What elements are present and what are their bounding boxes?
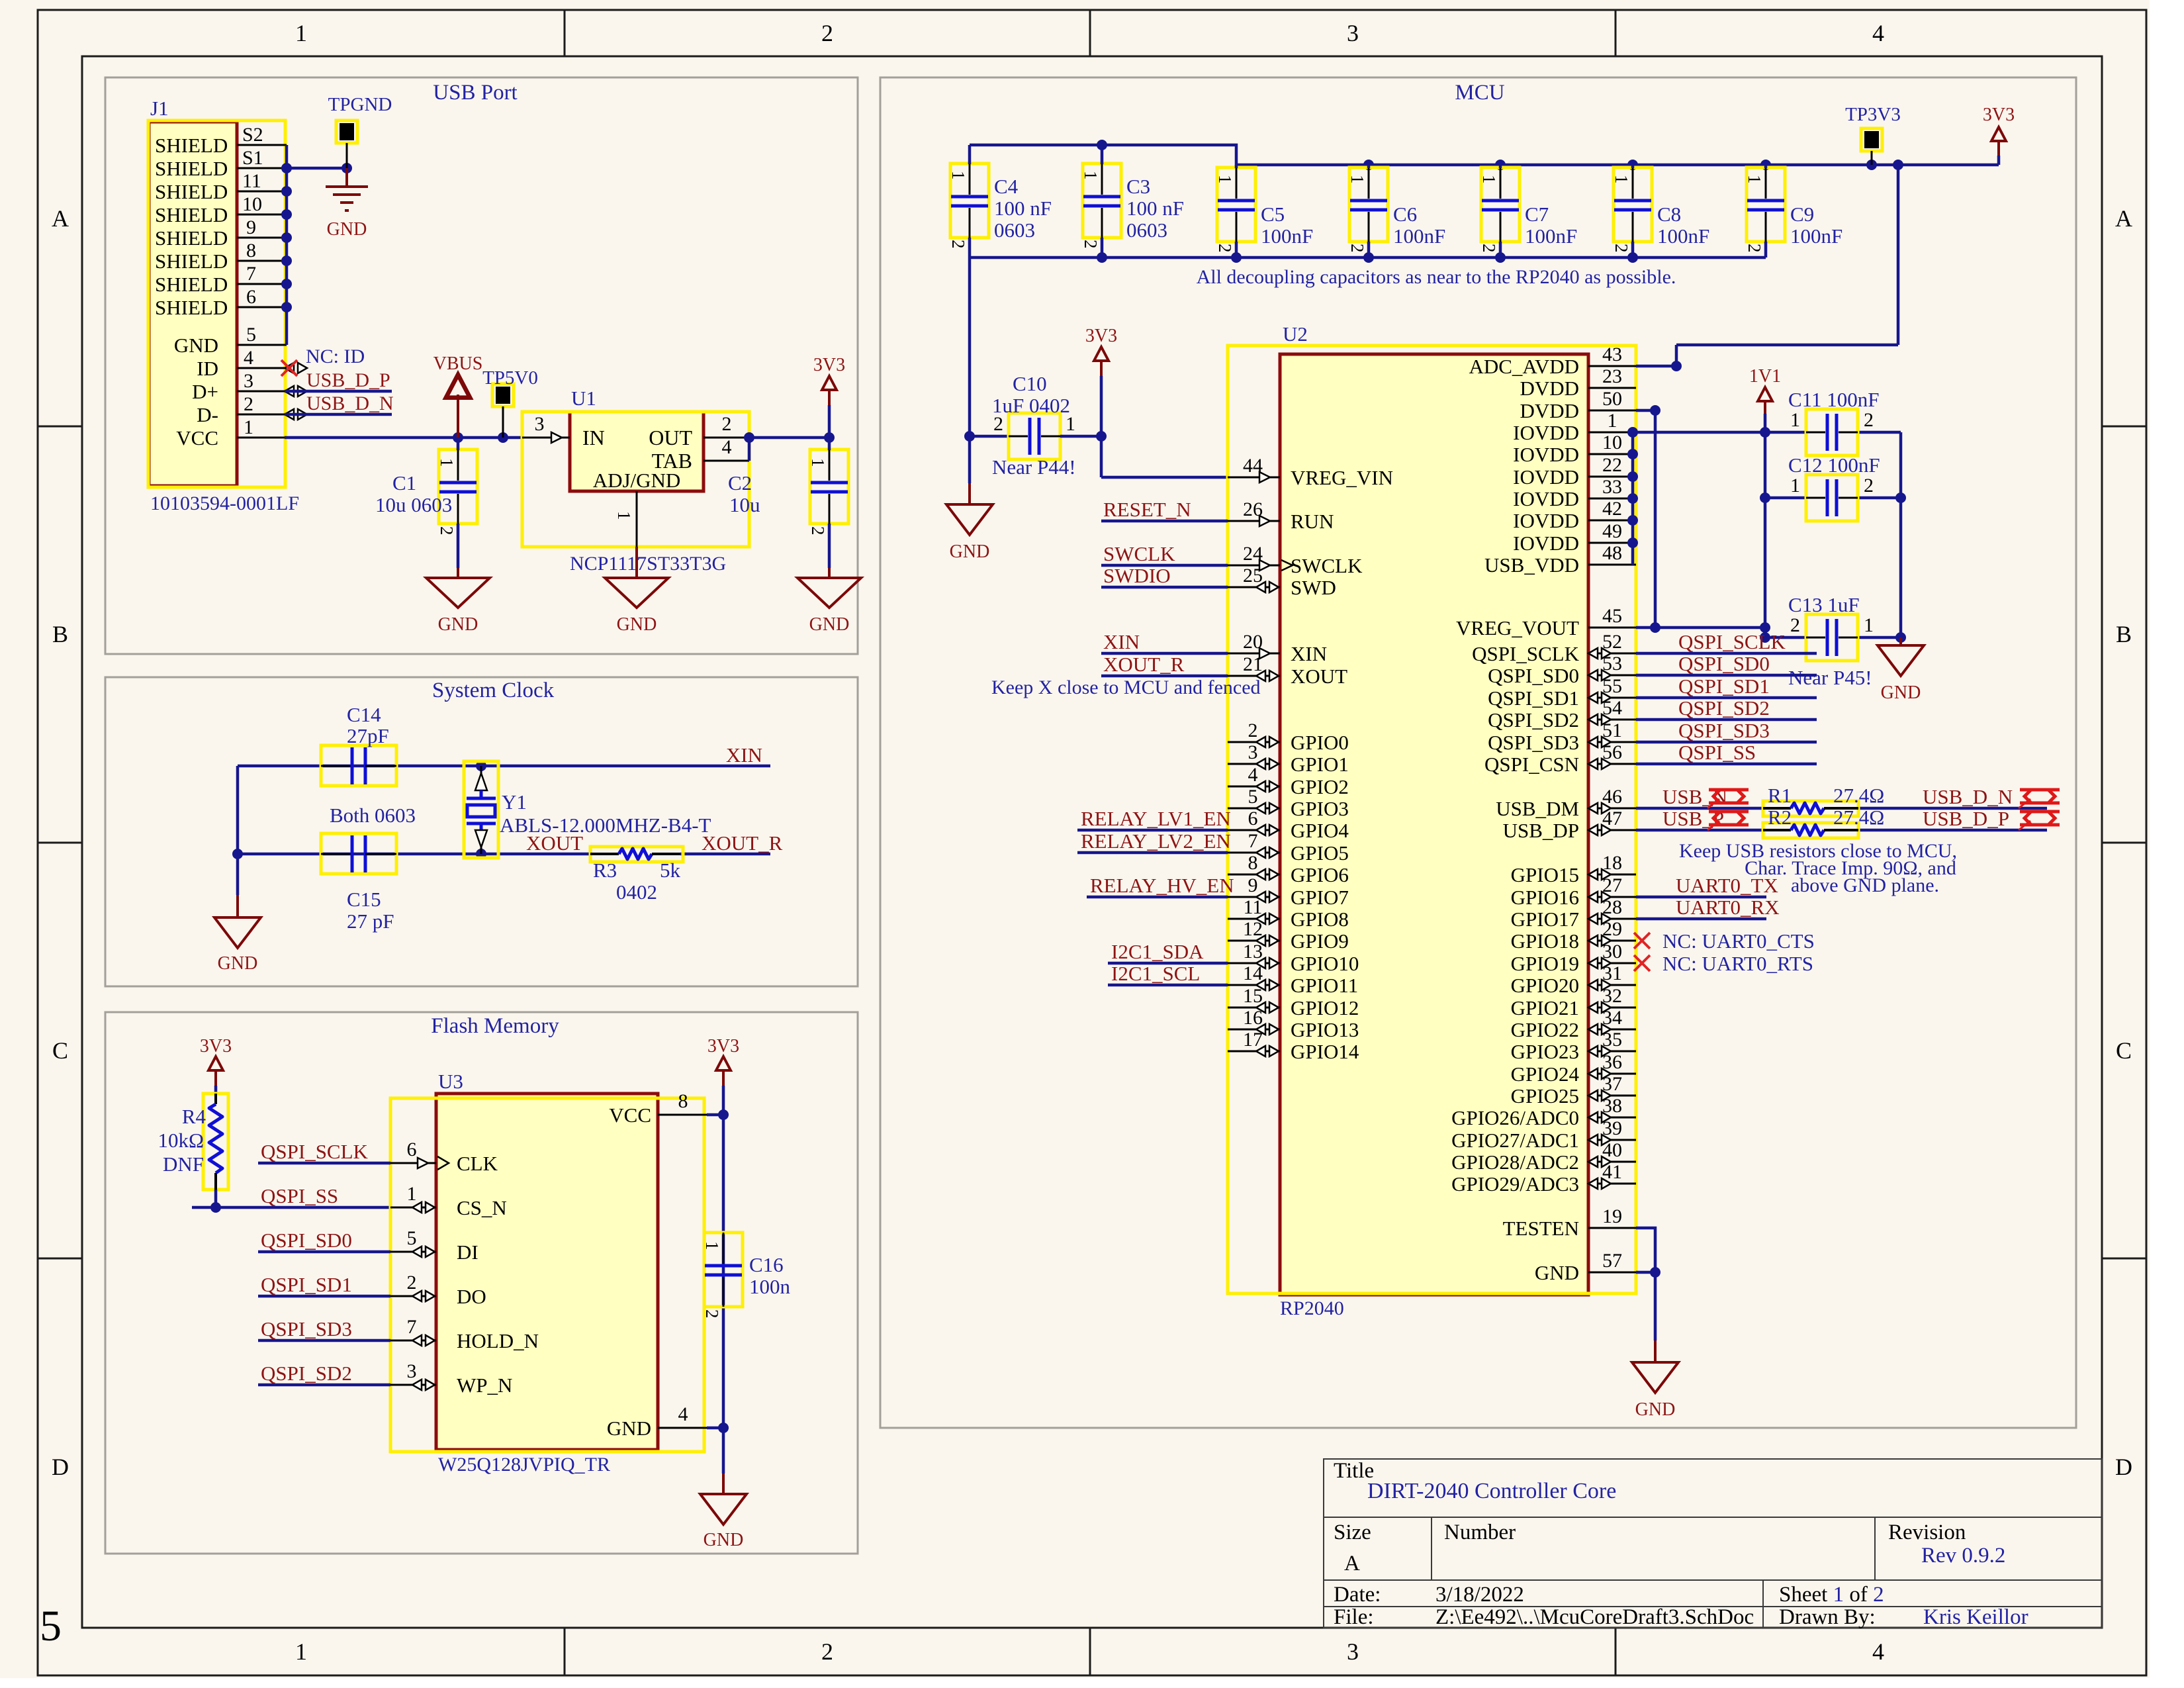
svg-text:5: 5 bbox=[40, 1602, 62, 1650]
svg-text:GPIO21: GPIO21 bbox=[1511, 996, 1579, 1019]
svg-text:2: 2 bbox=[948, 240, 968, 249]
svg-text:NC: UART0_RTS: NC: UART0_RTS bbox=[1662, 952, 1813, 975]
svg-text:QSPI_SD0: QSPI_SD0 bbox=[1678, 652, 1770, 675]
svg-text:1: 1 bbox=[1081, 171, 1101, 180]
wire: VBUS rail from J1 VCC to U1 IN bbox=[285, 432, 522, 443]
svg-text:6: 6 bbox=[407, 1139, 417, 1160]
svg-text:CLK: CLK bbox=[457, 1152, 498, 1175]
row tick marks right bbox=[2102, 426, 2146, 1258]
svg-text:10103594-0001LF: 10103594-0001LF bbox=[150, 492, 299, 514]
svg-text:5: 5 bbox=[407, 1227, 417, 1249]
svg-text:VREG_VIN: VREG_VIN bbox=[1291, 466, 1393, 489]
net label QSPI_SD2 (MCU) bbox=[1636, 718, 1817, 722]
svg-text:GPIO6: GPIO6 bbox=[1291, 863, 1349, 886]
svg-text:QSPI_SD1: QSPI_SD1 bbox=[1678, 675, 1770, 698]
svg-text:QSPI_SS: QSPI_SS bbox=[261, 1184, 338, 1207]
svg-text:C10: C10 bbox=[1013, 372, 1047, 395]
svg-text:3: 3 bbox=[1347, 1638, 1359, 1665]
svg-text:RUN: RUN bbox=[1291, 510, 1334, 533]
svg-text:C7: C7 bbox=[1525, 203, 1549, 226]
U3 pin 5 DI bbox=[390, 1251, 436, 1253]
svg-text:UART0_TX: UART0_TX bbox=[1676, 874, 1778, 897]
svg-text:1: 1 bbox=[407, 1183, 417, 1205]
wire: 3V3 decoupling top rail bbox=[970, 140, 1999, 366]
net label XOUT_R (MCU) bbox=[1101, 675, 1228, 678]
svg-text:1: 1 bbox=[808, 458, 828, 467]
section box: USB Port bbox=[105, 77, 858, 654]
no-connect cross on pin 4 ID bbox=[281, 360, 297, 376]
wire: flash VCC rail bbox=[707, 1086, 729, 1474]
svg-text:GPIO0: GPIO0 bbox=[1291, 731, 1349, 754]
svg-text:GPIO25: GPIO25 bbox=[1511, 1084, 1579, 1107]
svg-text:GND: GND bbox=[1535, 1261, 1579, 1284]
svg-text:GPIO12: GPIO12 bbox=[1291, 996, 1359, 1019]
svg-text:GPIO10: GPIO10 bbox=[1291, 952, 1359, 975]
svg-text:2: 2 bbox=[722, 413, 732, 435]
svg-text:QSPI_SD2: QSPI_SD2 bbox=[261, 1362, 352, 1385]
svg-text:1: 1 bbox=[1745, 175, 1764, 184]
wire: DVDD pin 50 to VREG_VOUT pin 45 bbox=[1636, 405, 1770, 633]
net label UART0_RX bbox=[1636, 917, 1766, 921]
wire: U1 OUT to 3V3 and C2 bbox=[744, 432, 835, 461]
MCU U2 RP2040 body bbox=[1228, 346, 1636, 1295]
capacitor C16 bbox=[704, 1233, 743, 1307]
svg-text:GPIO4: GPIO4 bbox=[1291, 819, 1349, 842]
svg-text:2: 2 bbox=[244, 393, 253, 415]
svg-text:48: 48 bbox=[1602, 542, 1622, 564]
svg-text:2: 2 bbox=[821, 1638, 833, 1665]
svg-text:2: 2 bbox=[1864, 409, 1874, 431]
svg-text:6: 6 bbox=[1248, 808, 1258, 829]
svg-text:QSPI_SD0: QSPI_SD0 bbox=[1488, 664, 1579, 687]
capacitor C15 (horizontal) bbox=[321, 833, 396, 874]
svg-text:XOUT: XOUT bbox=[1291, 665, 1347, 688]
connector J1 pin names bbox=[155, 134, 228, 449]
svg-text:27 pF: 27 pF bbox=[347, 910, 394, 933]
svg-text:GPIO27/ADC1: GPIO27/ADC1 bbox=[1451, 1129, 1579, 1152]
svg-text:Drawn By:: Drawn By: bbox=[1779, 1605, 1876, 1629]
svg-text:USB Port: USB Port bbox=[433, 81, 517, 105]
svg-text:SHIELD: SHIELD bbox=[155, 134, 228, 157]
svg-text:Number: Number bbox=[1444, 1521, 1516, 1544]
svg-text:GPIO19: GPIO19 bbox=[1511, 952, 1579, 975]
wire: XOUT net bbox=[232, 849, 770, 859]
svg-text:GPIO9: GPIO9 bbox=[1291, 929, 1349, 953]
svg-text:QSPI_SD2: QSPI_SD2 bbox=[1678, 696, 1770, 720]
svg-text:2: 2 bbox=[1612, 244, 1631, 253]
svg-text:IOVDD: IOVDD bbox=[1513, 509, 1579, 532]
svg-text:GPIO15: GPIO15 bbox=[1511, 863, 1579, 886]
svg-text:100 nF: 100 nF bbox=[994, 197, 1052, 220]
regulator U1 bbox=[522, 412, 749, 547]
svg-text:DIRT-2040 Controller Core: DIRT-2040 Controller Core bbox=[1367, 1479, 1616, 1503]
svg-text:File:: File: bbox=[1334, 1605, 1374, 1629]
svg-text:100nF: 100nF bbox=[1525, 224, 1577, 248]
svg-text:11: 11 bbox=[242, 170, 261, 192]
svg-text:RP2040: RP2040 bbox=[1280, 1297, 1344, 1319]
svg-text:SWDIO: SWDIO bbox=[1103, 564, 1171, 587]
svg-text:3/18/2022: 3/18/2022 bbox=[1435, 1583, 1524, 1607]
connector J1 pin numbers bbox=[242, 124, 263, 438]
svg-text:GPIO13: GPIO13 bbox=[1291, 1018, 1359, 1041]
svg-text:ID: ID bbox=[197, 357, 218, 380]
svg-text:2: 2 bbox=[1745, 244, 1764, 253]
U1 pin 2 OUT bbox=[704, 437, 749, 439]
svg-text:Kris Keillor: Kris Keillor bbox=[1923, 1605, 2028, 1629]
svg-text:RELAY_HV_EN: RELAY_HV_EN bbox=[1090, 874, 1234, 897]
svg-text:UART0_RX: UART0_RX bbox=[1676, 896, 1780, 919]
svg-text:7: 7 bbox=[246, 263, 256, 285]
svg-text:GPIO23: GPIO23 bbox=[1511, 1040, 1579, 1063]
svg-text:3V3: 3V3 bbox=[1085, 326, 1117, 346]
U2 pin direction arrows bbox=[1256, 472, 1611, 1189]
svg-text:SHIELD: SHIELD bbox=[155, 226, 228, 250]
svg-text:10u: 10u bbox=[729, 493, 760, 516]
svg-text:GND: GND bbox=[950, 541, 990, 562]
svg-text:0402: 0402 bbox=[616, 880, 657, 904]
svg-text:2: 2 bbox=[821, 20, 833, 46]
svg-text:3: 3 bbox=[407, 1360, 417, 1382]
ground GND under C1 bbox=[457, 568, 459, 578]
net label QSPI_SD1 (flash) bbox=[258, 1295, 390, 1298]
svg-text:IOVDD: IOVDD bbox=[1513, 443, 1579, 466]
svg-text:GPIO20: GPIO20 bbox=[1511, 974, 1579, 997]
svg-text:3V3: 3V3 bbox=[200, 1036, 232, 1056]
svg-text:R1: R1 bbox=[1768, 784, 1792, 807]
svg-text:1: 1 bbox=[437, 458, 457, 467]
svg-text:2: 2 bbox=[808, 526, 828, 536]
net label QSPI_SCLK (flash) bbox=[258, 1162, 390, 1165]
svg-text:100nF: 100nF bbox=[1790, 224, 1843, 248]
svg-text:Rev 0.9.2: Rev 0.9.2 bbox=[1921, 1544, 2005, 1568]
net label I2C1_SCL bbox=[1108, 984, 1228, 987]
svg-text:RELAY_LV1_EN: RELAY_LV1_EN bbox=[1081, 807, 1231, 830]
svg-text:1: 1 bbox=[1790, 409, 1800, 431]
svg-text:57: 57 bbox=[1602, 1250, 1622, 1272]
no-connect cross pin 30 bbox=[1634, 955, 1650, 971]
svg-text:C3: C3 bbox=[1126, 175, 1150, 198]
svg-text:VCC: VCC bbox=[609, 1103, 651, 1127]
svg-text:8: 8 bbox=[1248, 852, 1258, 874]
svg-text:GND: GND bbox=[1881, 682, 1921, 703]
svg-text:SHIELD: SHIELD bbox=[155, 180, 228, 203]
svg-text:C14: C14 bbox=[347, 703, 381, 726]
svg-text:1: 1 bbox=[295, 1638, 307, 1665]
svg-text:WP_N: WP_N bbox=[457, 1374, 512, 1397]
svg-text:GPIO11: GPIO11 bbox=[1291, 974, 1358, 997]
svg-text:C15: C15 bbox=[347, 888, 381, 911]
net label XIN (MCU) bbox=[1101, 652, 1228, 655]
svg-text:GPIO17: GPIO17 bbox=[1511, 908, 1579, 931]
svg-text:S1: S1 bbox=[242, 147, 263, 169]
U3 pin 8 VCC bbox=[658, 1114, 707, 1116]
net label QSPI_SD3 (flash) bbox=[258, 1339, 390, 1342]
flash chip U3 bbox=[390, 1094, 704, 1452]
svg-text:SWCLK: SWCLK bbox=[1291, 554, 1363, 577]
connector J1 pin stubs bbox=[237, 145, 287, 438]
capacitor C9 bbox=[1747, 167, 1785, 242]
svg-text:3V3: 3V3 bbox=[707, 1036, 739, 1056]
svg-text:2: 2 bbox=[993, 413, 1003, 435]
svg-text:R4: R4 bbox=[182, 1105, 206, 1128]
U3 pin 2 DO bbox=[390, 1295, 436, 1297]
wire: TESTEN and GND pin to ground bbox=[1636, 1228, 1661, 1340]
svg-text:GPIO1: GPIO1 bbox=[1291, 753, 1349, 776]
svg-text:GPIO18: GPIO18 bbox=[1511, 929, 1579, 953]
svg-text:D+: D+ bbox=[192, 380, 218, 403]
svg-text:Flash Memory: Flash Memory bbox=[431, 1014, 559, 1038]
svg-text:C11 100nF: C11 100nF bbox=[1788, 388, 1880, 411]
svg-text:GPIO7: GPIO7 bbox=[1291, 886, 1349, 909]
no-connect cross pin 29 bbox=[1634, 933, 1650, 949]
svg-text:DVDD: DVDD bbox=[1520, 377, 1579, 400]
svg-text:DI: DI bbox=[457, 1241, 478, 1264]
svg-text:GND: GND bbox=[438, 614, 478, 635]
net label USB_D_P bbox=[285, 390, 392, 393]
svg-text:4: 4 bbox=[244, 347, 253, 369]
svg-text:13: 13 bbox=[1243, 941, 1263, 962]
svg-text:GPIO3: GPIO3 bbox=[1291, 797, 1349, 820]
capacitor C8 bbox=[1614, 167, 1652, 242]
svg-text:IOVDD: IOVDD bbox=[1513, 465, 1579, 489]
svg-text:R2: R2 bbox=[1768, 806, 1792, 829]
svg-text:1: 1 bbox=[1612, 175, 1631, 184]
svg-text:2: 2 bbox=[702, 1309, 722, 1319]
svg-text:XIN: XIN bbox=[1291, 642, 1327, 665]
svg-text:GPIO16: GPIO16 bbox=[1511, 886, 1579, 909]
svg-text:GND: GND bbox=[218, 953, 258, 974]
svg-text:1: 1 bbox=[1479, 175, 1499, 184]
row tick marks left bbox=[38, 426, 82, 1258]
svg-text:C6: C6 bbox=[1393, 203, 1417, 226]
svg-text:2: 2 bbox=[437, 526, 457, 536]
svg-text:33: 33 bbox=[1602, 476, 1622, 498]
svg-text:100nF: 100nF bbox=[1393, 224, 1445, 248]
net label QSPI_SD3 (MCU) bbox=[1636, 741, 1817, 744]
svg-text:C: C bbox=[52, 1037, 68, 1064]
svg-text:C5: C5 bbox=[1261, 203, 1285, 226]
testpoint TP3V3 bbox=[1861, 128, 1882, 151]
svg-text:QSPI_SCLK: QSPI_SCLK bbox=[1472, 642, 1580, 665]
crystal Y1 bbox=[464, 761, 498, 858]
svg-text:GPIO26/ADC0: GPIO26/ADC0 bbox=[1451, 1106, 1579, 1129]
capacitor C7 bbox=[1481, 167, 1520, 242]
svg-text:XOUT_R: XOUT_R bbox=[702, 831, 783, 855]
svg-text:22: 22 bbox=[1602, 454, 1622, 476]
svg-text:1: 1 bbox=[1608, 410, 1617, 432]
svg-text:10: 10 bbox=[1602, 432, 1622, 453]
ground GND (left of C10) bbox=[968, 483, 971, 504]
svg-text:GND: GND bbox=[1635, 1399, 1676, 1420]
U1 pin 1 ADJ/GND bbox=[636, 491, 638, 547]
U3 pin 3 WP_N bbox=[390, 1384, 436, 1386]
svg-text:100 nF: 100 nF bbox=[1126, 197, 1184, 220]
section box: System Clock bbox=[105, 677, 858, 986]
svg-text:GPIO28/ADC2: GPIO28/ADC2 bbox=[1451, 1150, 1579, 1174]
svg-text:4: 4 bbox=[1248, 764, 1258, 786]
U1 pin 4 TAB bbox=[704, 460, 749, 462]
capacitor C3 bbox=[1083, 164, 1121, 238]
svg-text:SHIELD: SHIELD bbox=[155, 250, 228, 273]
svg-text:4: 4 bbox=[722, 436, 732, 458]
svg-text:QSPI_SD1: QSPI_SD1 bbox=[261, 1273, 352, 1296]
svg-text:I2C1_SCL: I2C1_SCL bbox=[1111, 962, 1200, 985]
svg-text:ADC_AVDD: ADC_AVDD bbox=[1469, 355, 1579, 378]
svg-text:23: 23 bbox=[1602, 365, 1622, 387]
svg-text:QSPI_SD3: QSPI_SD3 bbox=[261, 1317, 352, 1340]
svg-text:1: 1 bbox=[702, 1241, 722, 1250]
ground GND (earth bars) under TPGND bbox=[326, 168, 368, 211]
svg-text:10kΩ: 10kΩ bbox=[158, 1129, 204, 1152]
svg-text:9: 9 bbox=[1248, 874, 1258, 896]
net label USB_N / resistor R1 / net label USB_D_N bbox=[1636, 807, 2047, 810]
capacitor C13 bbox=[1806, 614, 1858, 661]
svg-text:2: 2 bbox=[1347, 244, 1367, 253]
svg-text:J1: J1 bbox=[150, 97, 169, 120]
svg-text:NC: ID: NC: ID bbox=[306, 346, 365, 367]
svg-text:2: 2 bbox=[1215, 244, 1235, 253]
svg-text:GND: GND bbox=[809, 614, 850, 635]
svg-text:4: 4 bbox=[1872, 1638, 1884, 1665]
svg-text:SHIELD: SHIELD bbox=[155, 203, 228, 226]
svg-text:2: 2 bbox=[1479, 244, 1499, 253]
svg-text:4: 4 bbox=[1872, 20, 1884, 46]
svg-text:100n: 100n bbox=[749, 1275, 791, 1298]
svg-text:Z:\Ee492\..\McuCoreDraft3.SchD: Z:\Ee492\..\McuCoreDraft3.SchDoc bbox=[1435, 1605, 1754, 1629]
svg-text:GND: GND bbox=[174, 334, 218, 357]
svg-text:C9: C9 bbox=[1790, 203, 1814, 226]
title block outline bbox=[1324, 1459, 2102, 1628]
connector J1 body bbox=[148, 120, 285, 487]
svg-text:GND: GND bbox=[704, 1530, 744, 1550]
svg-text:GPIO8: GPIO8 bbox=[1291, 908, 1349, 931]
svg-text:50: 50 bbox=[1602, 388, 1622, 410]
svg-text:C: C bbox=[2116, 1037, 2132, 1064]
svg-text:C12 100nF: C12 100nF bbox=[1788, 453, 1880, 477]
svg-text:IOVDD: IOVDD bbox=[1513, 532, 1579, 555]
svg-text:43: 43 bbox=[1602, 344, 1622, 365]
svg-text:R3: R3 bbox=[593, 859, 617, 882]
net label QSPI_SD0 (MCU) bbox=[1636, 674, 1817, 677]
svg-text:7: 7 bbox=[1248, 830, 1258, 852]
svg-text:1uF 0402: 1uF 0402 bbox=[992, 394, 1070, 417]
net label USB_P / resistor R2 / net label USB_D_P bbox=[1636, 829, 2047, 832]
svg-text:USB_DP: USB_DP bbox=[1503, 819, 1579, 842]
svg-text:100nF: 100nF bbox=[1657, 224, 1709, 248]
capacitor C4 bbox=[950, 164, 989, 238]
column tick marks bottom bbox=[565, 1628, 1615, 1675]
svg-text:2: 2 bbox=[407, 1272, 417, 1293]
ground GND under U1 bbox=[635, 547, 638, 578]
svg-text:XIN: XIN bbox=[726, 743, 762, 767]
ground GND (flash) bbox=[722, 1474, 725, 1494]
svg-text:Near P45!: Near P45! bbox=[1788, 666, 1872, 689]
svg-text:9: 9 bbox=[246, 216, 256, 238]
ground GND (right cap bank) bbox=[1899, 637, 1902, 645]
capacitor C14 (horizontal) bbox=[321, 745, 396, 786]
svg-text:CS_N: CS_N bbox=[457, 1196, 507, 1219]
ground GND (system clock) bbox=[236, 854, 240, 895]
svg-text:USB_D_P: USB_D_P bbox=[1923, 807, 2009, 830]
wire: R4 to QSPI_SS bbox=[192, 1190, 389, 1213]
svg-text:27.4Ω: 27.4Ω bbox=[1833, 784, 1884, 807]
svg-text:U2: U2 bbox=[1283, 322, 1308, 346]
svg-text:0603: 0603 bbox=[1126, 218, 1167, 242]
wire: capacitor left bus C11-C13 bbox=[1760, 432, 1806, 643]
svg-text:1: 1 bbox=[948, 171, 968, 180]
svg-text:USB_D_N: USB_D_N bbox=[1923, 785, 2013, 808]
svg-text:1: 1 bbox=[244, 416, 253, 438]
svg-text:2: 2 bbox=[1790, 614, 1800, 636]
svg-text:IN: IN bbox=[582, 426, 605, 449]
svg-text:SHIELD: SHIELD bbox=[155, 296, 228, 319]
svg-text:XIN: XIN bbox=[1103, 630, 1140, 653]
wire: decoupling bottom (GND) rail bbox=[970, 252, 1766, 263]
U3 pin 6 CLK bbox=[390, 1162, 436, 1164]
U2 left pin stubs bbox=[1228, 477, 1280, 1051]
J1 IO pin arrows bbox=[285, 363, 307, 373]
svg-text:XOUT_R: XOUT_R bbox=[1103, 653, 1185, 676]
capacitor C10 bbox=[1009, 413, 1060, 459]
svg-text:TESTEN: TESTEN bbox=[1503, 1217, 1579, 1240]
svg-text:USB_DM: USB_DM bbox=[1496, 797, 1579, 820]
net label UART0_TX bbox=[1636, 896, 1766, 899]
svg-text:DNF: DNF bbox=[163, 1152, 204, 1176]
svg-text:QSPI_SD3: QSPI_SD3 bbox=[1488, 731, 1579, 754]
wire: IOVDD bus (pins 1,10,22,33,42,49,48) bbox=[1627, 427, 1638, 565]
svg-text:MCU: MCU bbox=[1455, 81, 1504, 105]
svg-text:TP5V0: TP5V0 bbox=[482, 367, 538, 389]
net label RESET_N bbox=[1101, 520, 1228, 523]
net label I2C1_SDA bbox=[1108, 962, 1228, 965]
net label QSPI_SD2 (flash) bbox=[258, 1383, 390, 1387]
svg-text:GND: GND bbox=[327, 219, 367, 240]
resistor R3 bbox=[590, 847, 683, 862]
wire: shield bus to TPGND bbox=[281, 145, 352, 345]
svg-text:GPIO2: GPIO2 bbox=[1291, 775, 1349, 798]
svg-text:1: 1 bbox=[295, 20, 307, 46]
svg-text:TP3V3: TP3V3 bbox=[1845, 104, 1901, 125]
capacitor C5 bbox=[1217, 167, 1255, 242]
svg-text:QSPI_SCLK: QSPI_SCLK bbox=[1678, 630, 1786, 653]
net label SWCLK bbox=[1101, 564, 1228, 567]
svg-text:QSPI_CSN: QSPI_CSN bbox=[1484, 753, 1579, 776]
svg-text:B: B bbox=[52, 621, 68, 647]
wire: capacitor right bus to GND bbox=[1858, 432, 1906, 643]
svg-text:SWD: SWD bbox=[1291, 576, 1336, 599]
svg-text:C2: C2 bbox=[728, 471, 752, 494]
section box: Flash Memory bbox=[105, 1012, 858, 1554]
svg-text:USB_D_P: USB_D_P bbox=[306, 369, 390, 391]
ground GND under C2 bbox=[828, 568, 831, 578]
svg-text:49: 49 bbox=[1602, 520, 1622, 542]
svg-text:GND: GND bbox=[607, 1417, 651, 1440]
svg-text:I2C1_SDA: I2C1_SDA bbox=[1111, 940, 1204, 963]
svg-text:SHIELD: SHIELD bbox=[155, 273, 228, 296]
svg-text:U3: U3 bbox=[438, 1070, 463, 1093]
wire: 1V1 rail pin 1 to C11 bbox=[1636, 427, 1901, 438]
svg-text:ADJ/GND: ADJ/GND bbox=[593, 469, 681, 492]
svg-text:TPGND: TPGND bbox=[328, 94, 392, 115]
svg-text:Date:: Date: bbox=[1334, 1583, 1381, 1607]
resistor R4 (vertical, DNF) bbox=[203, 1094, 228, 1190]
svg-text:Both 0603: Both 0603 bbox=[330, 804, 416, 827]
svg-text:3: 3 bbox=[244, 370, 253, 392]
svg-text:Y1: Y1 bbox=[502, 790, 527, 814]
svg-text:D-: D- bbox=[197, 403, 218, 426]
svg-text:D: D bbox=[2115, 1454, 2132, 1480]
svg-text:A: A bbox=[1344, 1552, 1360, 1575]
